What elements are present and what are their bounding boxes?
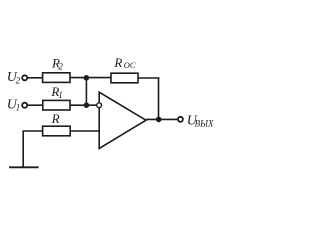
wire R to op-amp noninverting input [70, 130, 99, 132]
wire R2 to node A to Roc [70, 77, 111, 79]
wire Roc to corner [138, 77, 159, 79]
node A junction [84, 75, 90, 81]
terminal U1 [22, 103, 27, 108]
resistor R1 [43, 100, 70, 110]
resistor R2 [43, 73, 70, 83]
svg-text:1: 1 [16, 103, 20, 113]
node C output junction [156, 117, 162, 123]
terminal U2 [22, 75, 27, 80]
terminal output [178, 117, 183, 122]
svg-text:R: R [51, 111, 60, 126]
wire R1 to node B to bubble [70, 104, 97, 106]
resistor R [43, 126, 71, 136]
node B junction [84, 102, 90, 108]
svg-text:1: 1 [58, 90, 63, 100]
svg-text:ВЫХ: ВЫХ [195, 119, 214, 129]
wire op-amp output to terminal [146, 118, 178, 120]
wire node A to node B [85, 78, 87, 106]
svg-text:ОС: ОС [124, 60, 136, 70]
resistor Roc [111, 73, 138, 83]
svg-text:2: 2 [16, 75, 21, 85]
wire U1 to R1 [27, 104, 43, 106]
ground [9, 166, 39, 168]
svg-text:2: 2 [58, 61, 63, 71]
svg-text:R: R [113, 55, 122, 70]
wire ground corner to R [23, 131, 42, 167]
wire U2 to R2 [27, 77, 43, 79]
op-amp U1 triangle [99, 92, 146, 148]
op-amp inverting input bubble [97, 103, 102, 108]
wire corner down to output node [158, 77, 160, 119]
